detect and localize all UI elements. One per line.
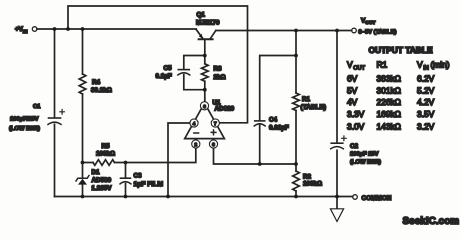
junction node Vin/C1	[53, 27, 57, 31]
svg-text:226kΩ: 226kΩ	[377, 97, 401, 107]
wire: C1 top lead	[54, 29, 56, 117]
wire: Q1 base lead	[204, 39, 206, 55]
svg-text:COMMON: COMMON	[362, 195, 392, 202]
svg-text:MJE170: MJE170	[196, 20, 220, 27]
junction node C4 bottom	[258, 162, 262, 166]
wire: op-amp pin 3 to feedback divider node	[214, 148, 297, 164]
svg-text:C2: C2	[350, 143, 359, 150]
svg-text:0.01µF: 0.01µF	[269, 125, 289, 132]
wire: C3 bottom lead	[125, 184, 127, 197]
table row 4V	[347, 97, 435, 107]
table row 3.3V	[347, 109, 435, 119]
pin 2 circle (inverting input)	[192, 140, 200, 148]
svg-text:3.3V: 3.3V	[347, 109, 365, 119]
junction node R1 top / C4	[294, 54, 298, 58]
svg-text:100µF/25V: 100µF/25V	[10, 117, 39, 123]
svg-text:5.2V: 5.2V	[417, 86, 435, 96]
wire: +Vin input rail	[37, 28, 196, 30]
svg-text:C1: C1	[33, 104, 41, 110]
svg-text:(LOW ESR): (LOW ESR)	[350, 160, 381, 166]
svg-text:5V: 5V	[347, 86, 358, 96]
wire: Vout rail from Q1 collector to Vout terminal	[216, 30, 352, 32]
table row 3.0V	[347, 122, 435, 132]
pin 4 circle (V-)	[190, 119, 198, 127]
terminal COMMON	[353, 195, 358, 200]
label +Vin	[15, 26, 28, 34]
svg-text:6.2V: 6.2V	[417, 74, 435, 84]
terminal +Vin	[32, 27, 37, 32]
svg-text:V: V	[347, 60, 353, 70]
wire: R3 top lead	[204, 56, 206, 64]
capacitor C1 (electrolytic)	[48, 110, 64, 125]
svg-text:C5: C5	[164, 65, 173, 72]
svg-text:3.0V: 3.0V	[347, 122, 365, 132]
svg-text:SeekIC.com: SeekIC.com	[403, 216, 460, 227]
junction node Vin/top-rail	[66, 27, 70, 31]
svg-text:1.235V: 1.235V	[92, 185, 113, 192]
svg-text:R2: R2	[303, 174, 312, 181]
capacitor C5	[178, 69, 189, 71]
wire: C4 top branch across R1	[260, 56, 296, 121]
junction node R5/C3	[124, 161, 128, 165]
wire: R3 bottom lead	[204, 81, 206, 89]
wire: C2 top lead	[336, 31, 338, 143]
svg-text:3.2V: 3.2V	[417, 122, 435, 132]
junction node R3-C5 bottom / U1 out	[203, 88, 207, 92]
wire: C5 bottom branch	[184, 75, 205, 90]
capacitor C4	[255, 120, 265, 122]
wire: D1 top lead	[82, 163, 84, 179]
junction node Q1 base / R3-C5 top	[203, 54, 207, 58]
table header Vout	[347, 60, 366, 72]
wire: +Vin supply top rail to op-amp pin 7	[68, 6, 248, 123]
wire: C5 top branch	[184, 56, 205, 69]
terminal Vout	[352, 28, 357, 33]
wire: R4 top lead	[82, 29, 84, 74]
junction node gnd/C3	[124, 195, 128, 199]
svg-text:(LOW ESR): (LOW ESR)	[9, 126, 40, 132]
junction node R1/R2 divider tap	[294, 162, 298, 166]
svg-text:C4: C4	[269, 117, 278, 124]
junction node ref: R4/D1/R5	[81, 161, 85, 165]
svg-text:C3: C3	[134, 173, 143, 180]
op-amp U1 AD820 triangle	[185, 103, 225, 139]
svg-text:301kΩ: 301kΩ	[377, 86, 401, 96]
wire: C3 top lead	[125, 163, 127, 178]
resistor R5	[93, 160, 115, 166]
wire: C2 bottom lead	[336, 150, 338, 196]
svg-text:IN: IN	[23, 29, 28, 34]
svg-text:R3: R3	[214, 66, 223, 73]
svg-text:(min): (min)	[431, 60, 450, 70]
table header Vin (min)	[417, 60, 450, 72]
svg-text:IN: IN	[423, 66, 429, 72]
resistor R1	[293, 93, 300, 111]
svg-text:R1: R1	[302, 96, 311, 103]
junction node gnd/U1 pin4	[166, 195, 170, 199]
svg-text:4V: 4V	[347, 97, 358, 107]
wire: C1 bottom lead	[54, 124, 56, 196]
junction node gnd/C2	[335, 195, 339, 199]
svg-text:1µF FILM: 1µF FILM	[134, 181, 164, 188]
capacitor C3	[121, 177, 131, 179]
diode D1 AD589 (zener reference)	[76, 176, 89, 185]
svg-text:OUT: OUT	[353, 66, 365, 72]
svg-text:39.2kΩ: 39.2kΩ	[91, 87, 112, 94]
svg-text:100kΩ: 100kΩ	[96, 151, 115, 158]
svg-text:100kΩ: 100kΩ	[303, 181, 322, 188]
wire: R4 bottom lead to reference node	[82, 94, 84, 163]
svg-text:D1: D1	[92, 169, 101, 176]
wire: ground bottom rail	[55, 196, 353, 198]
svg-text:R1: R1	[377, 60, 388, 70]
wire: Vout rail to R1	[295, 31, 297, 56]
wire: R2 top lead	[295, 164, 297, 171]
svg-text:OUT: OUT	[365, 20, 375, 26]
op-amp minus input sign	[194, 132, 199, 134]
wire: reference node to R5	[83, 162, 94, 164]
wire: R2 bottom lead	[295, 191, 297, 197]
svg-text:R4: R4	[92, 79, 101, 86]
svg-text:169kΩ: 169kΩ	[377, 109, 401, 119]
wire: R1 bottom lead	[295, 111, 297, 165]
svg-text:4.2V: 4.2V	[417, 97, 435, 107]
junction node Vout/R1	[294, 29, 298, 33]
wire: op-amp pin 4 to ground	[168, 123, 190, 197]
wire: R1 top lead	[295, 56, 297, 94]
resistor R4	[79, 74, 86, 94]
svg-text:100µF 25V: 100µF 25V	[350, 152, 379, 158]
svg-text:AD589: AD589	[92, 177, 112, 184]
svg-text:6V: 6V	[347, 74, 358, 84]
svg-text:R5: R5	[102, 143, 111, 150]
resistor R2	[293, 171, 300, 191]
label Vout	[361, 18, 375, 27]
table row 5V	[347, 86, 435, 96]
svg-text:3–5V (TABLE): 3–5V (TABLE)	[359, 30, 397, 36]
junction node gnd/R2	[294, 195, 298, 199]
wire: D1 bottom lead	[82, 185, 84, 197]
op-amp plus input sign	[211, 130, 216, 135]
resistor R3	[202, 64, 209, 82]
svg-text:V: V	[417, 60, 423, 70]
svg-text:OUTPUT TABLE: OUTPUT TABLE	[369, 45, 433, 55]
transistor Q1 MJE170	[196, 30, 216, 40]
ground symbol	[330, 197, 343, 222]
pin 3 circle (non-inverting input)	[209, 140, 217, 148]
svg-text:0.1µF: 0.1µF	[156, 73, 172, 80]
svg-text:Q1: Q1	[197, 11, 206, 18]
svg-text:AD820: AD820	[215, 106, 235, 113]
wire: R5 to op-amp pin 2	[115, 148, 196, 162]
pin 6 circle (output)	[200, 102, 208, 110]
svg-text:383kΩ: 383kΩ	[377, 74, 401, 84]
junction node Vin/R4	[81, 27, 85, 31]
svg-text:(TABLE): (TABLE)	[301, 104, 327, 111]
pin 7 circle (V+)	[211, 119, 219, 127]
table row 6V	[347, 74, 435, 84]
junction node gnd/D1	[81, 195, 85, 199]
svg-text:143kΩ: 143kΩ	[377, 122, 401, 132]
junction node Vout/C2	[335, 29, 339, 33]
svg-text:2kΩ: 2kΩ	[214, 74, 226, 81]
svg-text:3.5V: 3.5V	[417, 109, 435, 119]
wire: op-amp pin 6 output lead	[204, 90, 206, 102]
capacitor C2 (electrolytic)	[331, 136, 347, 149]
wire: C4 bottom lead	[259, 125, 261, 164]
